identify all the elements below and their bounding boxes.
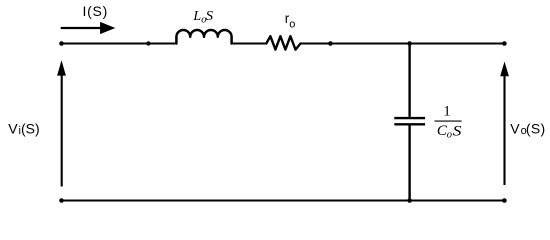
capacitor Co bottom plate bbox=[394, 123, 425, 125]
inductor Lo bbox=[176, 30, 231, 44]
wire: resistor to right end bbox=[301, 43, 505, 45]
node: after resistor bbox=[328, 41, 333, 46]
resistor ro bbox=[266, 36, 300, 49]
wire top: left node to inductor bbox=[62, 43, 177, 45]
node: capacitor top junction bbox=[407, 41, 412, 46]
arrow Vi(S) (left, pointing up) bbox=[61, 74, 63, 187]
node: capacitor bottom junction bbox=[407, 198, 412, 203]
svg-text:o: o bbox=[289, 19, 295, 31]
node: top left bbox=[59, 41, 64, 46]
capacitor Co top plate bbox=[394, 117, 425, 119]
node: bottom right bbox=[502, 198, 507, 203]
svg-text:S: S bbox=[206, 9, 213, 24]
capacitor Co top stem bbox=[408, 44, 410, 117]
node: top mid bbox=[146, 41, 150, 45]
wire bottom bbox=[62, 200, 505, 202]
svg-text:1: 1 bbox=[443, 104, 451, 120]
svg-text:I(S): I(S) bbox=[83, 3, 109, 19]
svg-text:o: o bbox=[447, 129, 452, 140]
svg-text:(S): (S) bbox=[21, 121, 40, 137]
svg-text:L: L bbox=[192, 9, 201, 24]
svg-text:(S): (S) bbox=[526, 121, 546, 137]
node: bottom left bbox=[59, 198, 64, 203]
svg-text:S: S bbox=[453, 123, 462, 139]
wire: inductor to resistor bbox=[232, 43, 267, 45]
svg-text:V: V bbox=[8, 121, 18, 137]
node: top right bbox=[502, 41, 507, 46]
current arrow I(S) bbox=[61, 27, 102, 29]
capacitor Co bottom stem bbox=[408, 126, 410, 201]
svg-text:V: V bbox=[510, 121, 520, 137]
arrow Vo(S) (right, pointing up) bbox=[503, 74, 505, 185]
label 1/(CoS): fraction bar bbox=[435, 120, 462, 122]
